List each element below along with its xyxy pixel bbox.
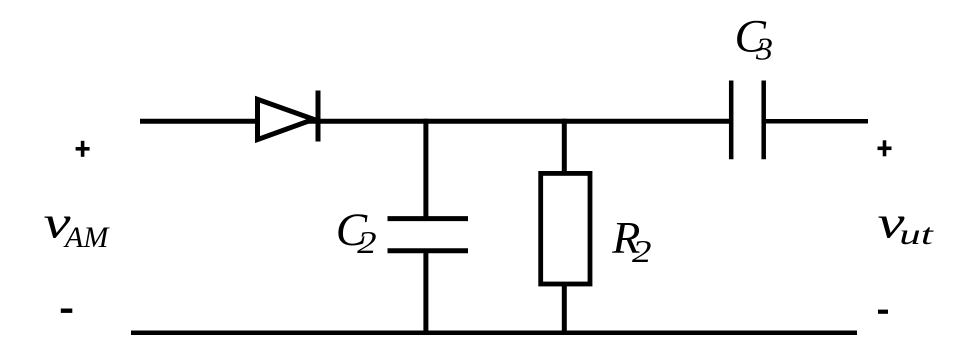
- svg-text:2: 2: [632, 233, 652, 269]
- svg-text:2: 2: [357, 224, 377, 260]
- svg-text:3: 3: [755, 31, 773, 67]
- svg-text:ut: ut: [899, 218, 933, 251]
- svg-text:AM: AM: [63, 221, 110, 254]
